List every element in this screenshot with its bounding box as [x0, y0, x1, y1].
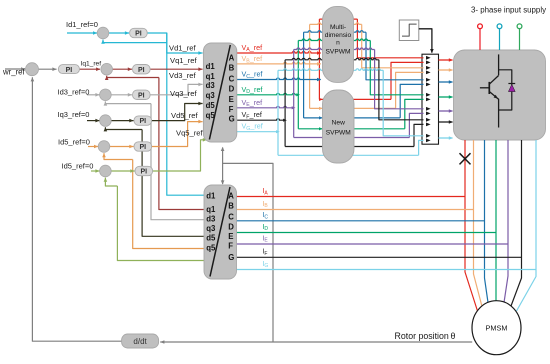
- svg-text:B: B: [228, 201, 234, 210]
- svg-text:Id1_ref=0: Id1_ref=0: [66, 20, 98, 29]
- svg-text:θ: θ: [451, 331, 456, 341]
- svg-text:3- phase input supply: 3- phase input supply: [471, 6, 546, 15]
- svg-text:D: D: [228, 222, 234, 231]
- svg-text:Vd3_ref: Vd3_ref: [169, 71, 196, 80]
- svg-text:SVPWM: SVPWM: [326, 130, 351, 137]
- svg-text:Iq3_ref=0: Iq3_ref=0: [58, 110, 90, 119]
- svg-text:B: B: [229, 64, 235, 73]
- svg-text:A: A: [228, 192, 234, 201]
- svg-text:PI: PI: [140, 169, 147, 176]
- svg-text:VD_ref: VD_ref: [242, 85, 263, 95]
- svg-text:VE_ref: VE_ref: [242, 98, 263, 108]
- svg-text:d3: d3: [206, 215, 216, 224]
- svg-text:dimensio: dimensio: [325, 32, 352, 39]
- svg-text:q3: q3: [206, 224, 216, 233]
- svg-text:VA_ref: VA_ref: [242, 43, 263, 53]
- svg-text:q1: q1: [206, 205, 216, 214]
- svg-text:C: C: [229, 75, 235, 84]
- svg-text:VG_ref: VG_ref: [242, 122, 263, 132]
- svg-text:VF_ref: VF_ref: [242, 110, 262, 120]
- svg-text:Vq1_ref: Vq1_ref: [170, 56, 197, 65]
- svg-text:A: A: [229, 53, 235, 62]
- svg-text:d1: d1: [206, 192, 216, 201]
- svg-text:PI: PI: [139, 118, 146, 125]
- svg-text:d3: d3: [206, 81, 216, 90]
- svg-text:PI: PI: [138, 67, 145, 74]
- svg-text:E: E: [228, 232, 233, 241]
- svg-text:PI: PI: [138, 92, 145, 99]
- svg-text:q5: q5: [206, 243, 216, 252]
- svg-text:Id5_ref=0: Id5_ref=0: [62, 162, 94, 171]
- svg-text:d1: d1: [206, 62, 216, 71]
- svg-text:PI: PI: [66, 67, 73, 74]
- svg-text:C: C: [228, 212, 234, 221]
- svg-text:q3: q3: [206, 91, 216, 100]
- svg-text:Rotor position: Rotor position: [395, 331, 449, 341]
- svg-text:VB_ref: VB_ref: [242, 54, 263, 64]
- svg-text:New: New: [332, 120, 345, 127]
- svg-text:q5: q5: [206, 111, 216, 120]
- svg-text:q1: q1: [206, 72, 216, 81]
- svg-text:PMSM: PMSM: [486, 324, 508, 333]
- svg-text:D: D: [229, 85, 235, 94]
- svg-text:F: F: [228, 242, 233, 251]
- svg-text:F: F: [229, 105, 234, 114]
- svg-text:n: n: [336, 40, 340, 47]
- svg-text:PI: PI: [135, 31, 142, 38]
- svg-text:G: G: [229, 115, 235, 124]
- svg-text:Id5_ref=0: Id5_ref=0: [58, 138, 90, 147]
- svg-text:Vd5_ref: Vd5_ref: [171, 111, 198, 120]
- svg-text:Iq1_ref: Iq1_ref: [81, 61, 102, 68]
- svg-text:d5: d5: [206, 234, 216, 243]
- svg-text:wr_ref: wr_ref: [2, 68, 25, 77]
- svg-text:E: E: [229, 95, 234, 104]
- svg-text:SVPWM: SVPWM: [326, 49, 351, 56]
- svg-text:VC_ref: VC_ref: [242, 70, 263, 80]
- svg-text:Multi-: Multi-: [330, 24, 346, 31]
- svg-text:Vd1_ref: Vd1_ref: [169, 44, 196, 53]
- svg-text:PI: PI: [139, 144, 146, 151]
- svg-text:Vq5_ref: Vq5_ref: [176, 128, 203, 137]
- svg-text:Vq3_ref: Vq3_ref: [170, 89, 197, 98]
- svg-text:Id3_ref=0: Id3_ref=0: [58, 88, 90, 97]
- svg-text:d5: d5: [206, 101, 216, 110]
- svg-text:G: G: [228, 253, 234, 262]
- svg-text:d/dt: d/dt: [133, 337, 147, 346]
